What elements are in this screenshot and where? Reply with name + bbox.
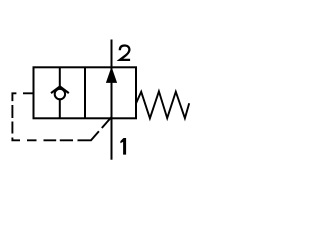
pilot line (dashed) diagonal to port 1 [78,117,112,140]
pilot line (dashed) bottom horizontal run [12,138,73,141]
valve body rectangle [34,67,137,118]
pilot line (dashed) stub from valve left edge [12,93,33,101]
check valve seat [51,86,69,93]
check valve flow line [59,67,61,118]
spring [136,91,189,118]
port label 2 [120,46,130,60]
pilot line (dashed) left vertical run [11,105,13,134]
check valve ball [55,89,65,99]
position divider [84,67,86,118]
port label 1 [120,138,126,155]
port line 2-1 flow path [111,40,113,160]
flow arrow head [107,68,117,82]
